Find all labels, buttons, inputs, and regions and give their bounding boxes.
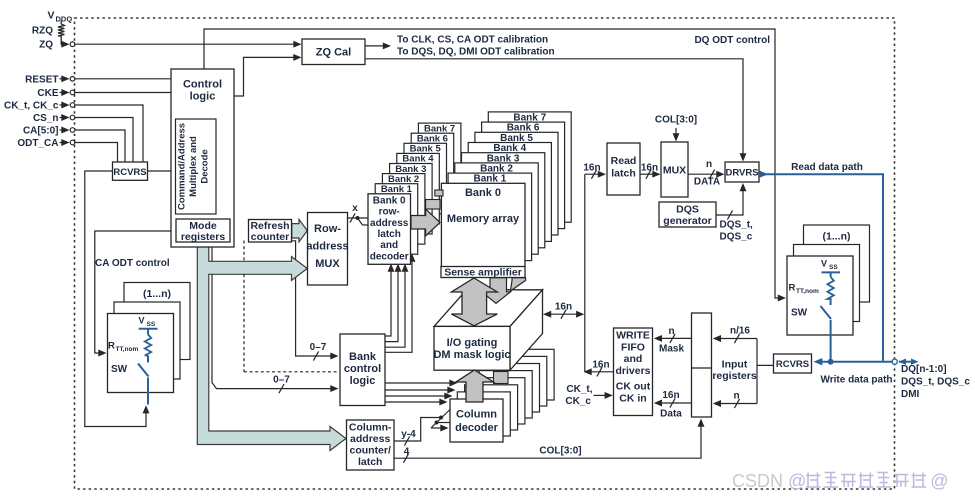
svg-text:4: 4 (404, 447, 410, 458)
svg-text:R: R (108, 341, 115, 352)
svg-text:registers: registers (181, 231, 226, 243)
svg-text:ZQ Cal: ZQ Cal (316, 47, 351, 59)
svg-text:Mask: Mask (659, 344, 684, 355)
svg-text:16n: 16n (662, 390, 679, 401)
svg-text:n: n (668, 326, 674, 337)
svg-text:CA ODT control: CA ODT control (95, 258, 170, 269)
svg-text:TT,nom: TT,nom (796, 288, 819, 295)
svg-text:V: V (138, 316, 144, 326)
svg-text:WRITE: WRITE (616, 330, 650, 342)
svg-text:CS_n: CS_n (33, 113, 59, 124)
svg-text:logic: logic (350, 375, 376, 387)
svg-text:Bank: Bank (349, 351, 377, 363)
svg-text:DMI: DMI (901, 389, 920, 400)
svg-text:Row-: Row- (314, 223, 341, 235)
svg-text:I/O gating: I/O gating (447, 337, 498, 349)
svg-text:RZQ: RZQ (32, 26, 53, 37)
svg-text:DQ[n-1:0]: DQ[n-1:0] (901, 364, 947, 375)
svg-text:CK in: CK in (619, 393, 646, 405)
svg-text:DQ ODT control: DQ ODT control (694, 35, 770, 46)
svg-text:RESET: RESET (25, 74, 58, 85)
svg-text:(1...n): (1...n) (143, 288, 171, 300)
svg-text:Bank 0: Bank 0 (465, 187, 501, 199)
svg-text:FIFO: FIFO (621, 341, 645, 353)
svg-text:DQS_t, DQS_c: DQS_t, DQS_c (901, 377, 970, 388)
svg-text:address: address (370, 218, 409, 229)
svg-text:0–7: 0–7 (310, 342, 327, 353)
svg-text:generator: generator (663, 215, 711, 227)
svg-text:n: n (706, 159, 712, 170)
svg-text:counter: counter (251, 231, 290, 243)
svg-text:SW: SW (791, 308, 808, 319)
svg-text:16n: 16n (555, 302, 572, 313)
svg-text:Multiplex and: Multiplex and (188, 136, 199, 197)
svg-text:CK out: CK out (616, 381, 651, 393)
svg-text:To CLK, CS, CA ODT calibration: To CLK, CS, CA ODT calibration (397, 35, 548, 46)
svg-text:Read data path: Read data path (791, 162, 863, 173)
svg-text:Read: Read (611, 155, 637, 167)
svg-text:drivers: drivers (615, 365, 650, 377)
svg-text:(1...n): (1...n) (823, 231, 851, 243)
svg-text:@: @ (930, 471, 948, 491)
svg-text:n: n (733, 391, 739, 402)
svg-text:DQS_c: DQS_c (720, 232, 753, 243)
svg-text:n/16: n/16 (730, 326, 750, 337)
svg-text:RCVRS: RCVRS (113, 167, 146, 178)
svg-text:Input: Input (722, 359, 748, 371)
svg-text:latch: latch (358, 456, 383, 468)
svg-text:address: address (350, 433, 390, 445)
svg-text:Control: Control (183, 79, 222, 91)
svg-text:latch: latch (378, 229, 401, 240)
svg-text:CK_t, CK_c: CK_t, CK_c (4, 101, 59, 112)
svg-text:V: V (47, 10, 54, 22)
svg-text:control: control (344, 363, 381, 375)
svg-text:DQS: DQS (676, 204, 699, 216)
svg-text:and: and (624, 353, 643, 365)
svg-text:Column-: Column- (349, 422, 392, 434)
svg-text:Command/Address: Command/Address (177, 123, 188, 210)
svg-text:logic: logic (190, 91, 216, 103)
svg-text:DRVRS: DRVRS (725, 168, 758, 179)
svg-text:decoder: decoder (455, 422, 499, 434)
svg-text:and: and (380, 240, 398, 251)
svg-text:x: x (352, 203, 358, 214)
svg-text:MUX: MUX (315, 258, 340, 270)
svg-text:16n: 16n (583, 163, 600, 174)
svg-text:COL[3:0]: COL[3:0] (655, 115, 697, 126)
svg-text:COL[3:0]: COL[3:0] (539, 446, 581, 457)
svg-text:CSDN @: CSDN @ (732, 471, 806, 491)
svg-text:DATA: DATA (694, 177, 720, 188)
svg-text:RCVRS: RCVRS (776, 359, 809, 370)
svg-text:address: address (306, 241, 348, 253)
svg-text:Data: Data (660, 409, 682, 420)
svg-text:Decode: Decode (200, 149, 211, 183)
svg-text:ODT_CA: ODT_CA (17, 138, 58, 149)
svg-text:TT,nom: TT,nom (116, 346, 139, 353)
svg-text:CK_t,: CK_t, (566, 384, 592, 395)
svg-text:Memory array: Memory array (447, 213, 520, 225)
svg-text:registers: registers (712, 370, 757, 382)
svg-text:MUX: MUX (663, 165, 686, 177)
svg-text:Bank 0: Bank 0 (373, 195, 406, 206)
svg-text:Sense amplifier: Sense amplifier (444, 267, 522, 279)
svg-text:16n: 16n (592, 360, 609, 371)
svg-text:y-4: y-4 (401, 429, 416, 440)
svg-text:Write data path: Write data path (820, 375, 892, 386)
svg-text:To DQS, DQ, DMI ODT calibratio: To DQS, DQ, DMI ODT calibration (397, 47, 555, 58)
svg-text:DQS_t,: DQS_t, (720, 220, 754, 231)
svg-text:V: V (821, 259, 827, 269)
svg-text:counter/: counter/ (349, 445, 391, 457)
svg-text:CA[5:0]: CA[5:0] (23, 126, 59, 137)
svg-text:0–7: 0–7 (273, 375, 290, 386)
svg-text:latch: latch (611, 168, 636, 180)
svg-text:CKE: CKE (37, 88, 58, 99)
svg-text:SW: SW (111, 364, 128, 375)
svg-text:row-: row- (379, 207, 400, 218)
svg-text:R: R (789, 283, 796, 294)
svg-text:decoder: decoder (370, 251, 409, 262)
svg-text:SS: SS (147, 321, 156, 328)
svg-text:ZQ: ZQ (39, 40, 53, 51)
svg-text:SS: SS (829, 264, 838, 271)
svg-text:CK_c: CK_c (565, 396, 591, 407)
svg-text:16n: 16n (641, 163, 658, 174)
svg-text:Column: Column (456, 409, 497, 421)
svg-text:DDQ: DDQ (56, 15, 73, 24)
svg-text:DM mask logic: DM mask logic (433, 349, 510, 361)
